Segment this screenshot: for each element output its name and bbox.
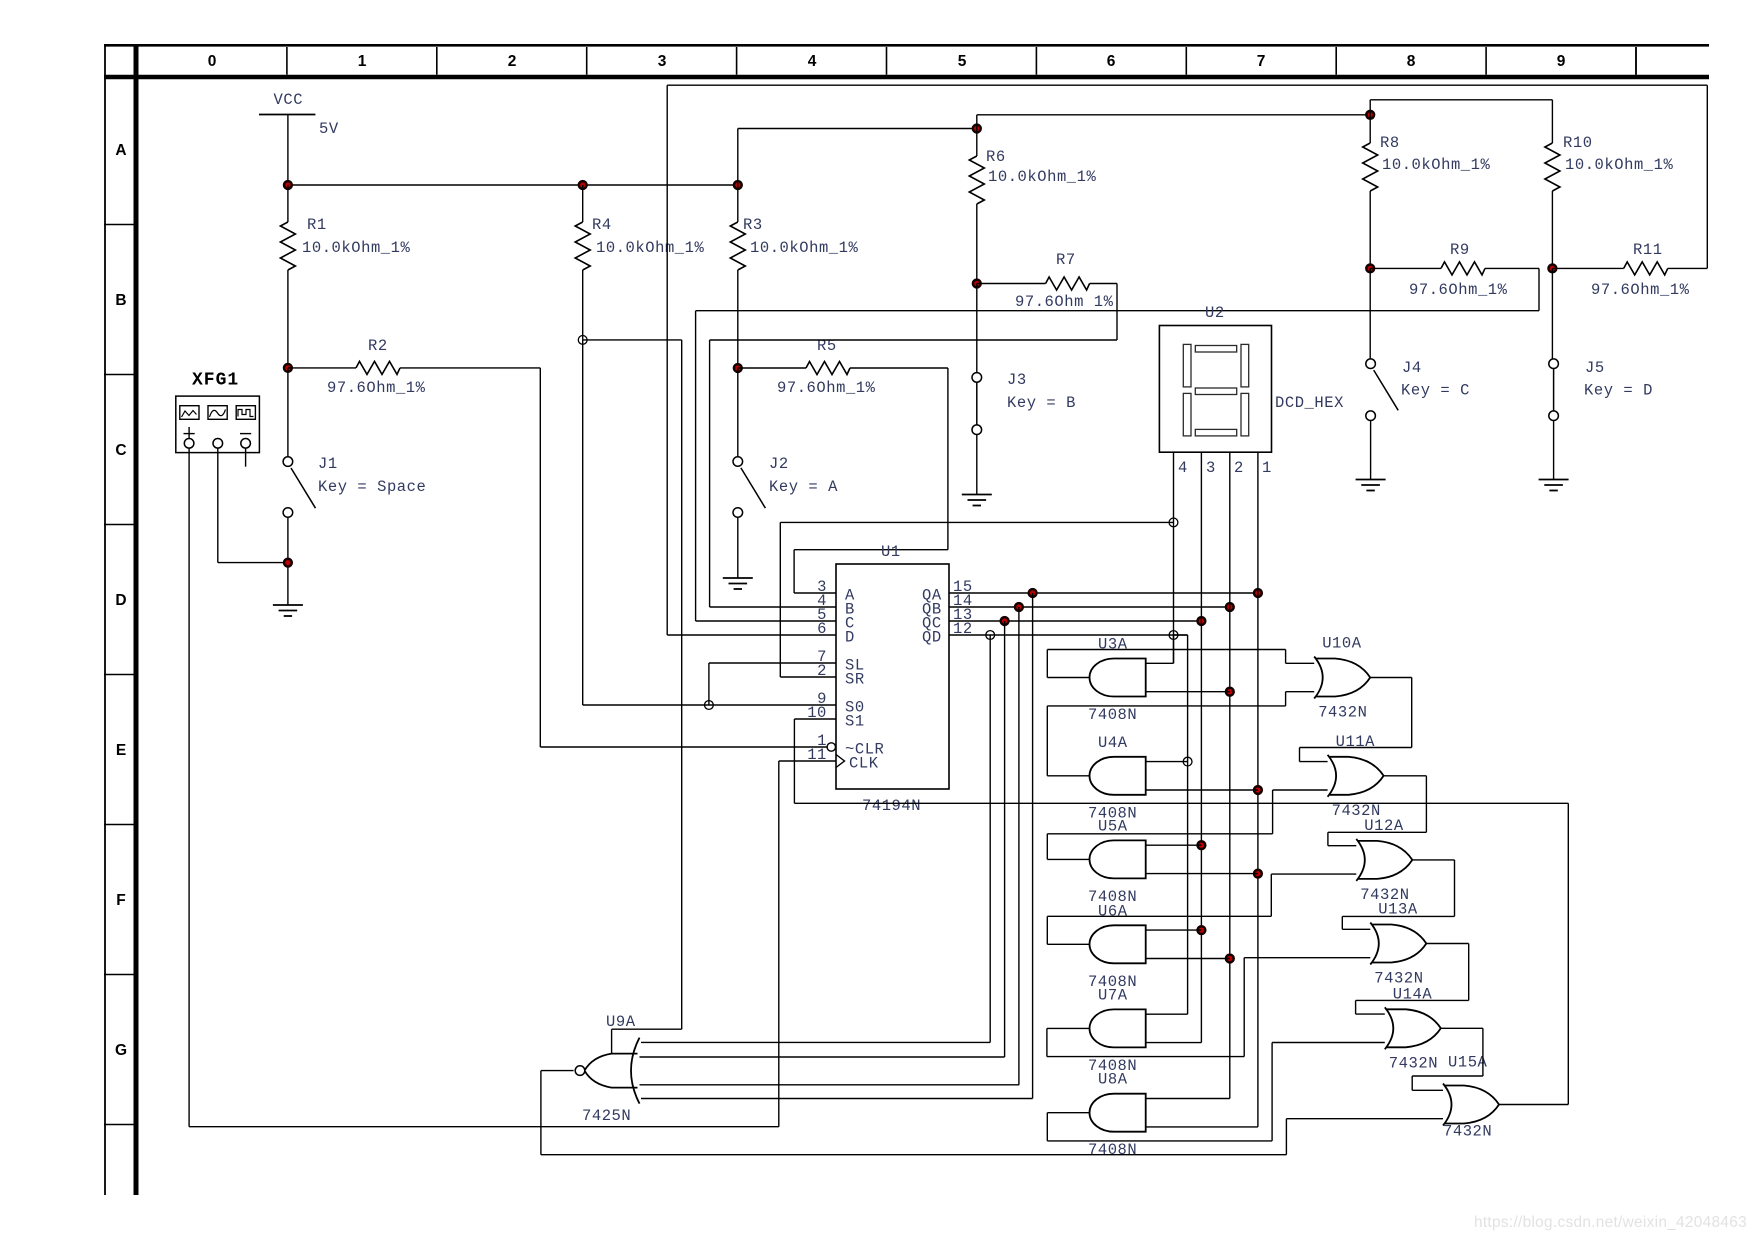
wire J1 top lead (287, 368, 289, 457)
junction R10-R11-J5 (1549, 265, 1557, 273)
svg-text:SR: SR (845, 671, 865, 689)
wire J5 top lead (1551, 268, 1553, 359)
NOR gate U9A 7425N (585, 1038, 640, 1104)
wire U2 pin1 lead (1257, 452, 1259, 1127)
junction QA-U5A input (1254, 870, 1262, 878)
resistor R8 (1363, 143, 1378, 191)
resistor R3 (730, 222, 745, 270)
wire U10A input1 stub (1286, 662, 1315, 664)
svg-text:XFG1: XFG1 (192, 371, 239, 391)
svg-text:U15A: U15A (1448, 1054, 1488, 1072)
OR gate U10A 7432N (1314, 657, 1370, 699)
wire U7A output to U13A (1047, 1056, 1244, 1058)
wire R8 lower lead (1369, 191, 1371, 268)
svg-text:10.0kOhm_1%: 10.0kOhm_1% (1565, 156, 1674, 174)
wire U10A output (1370, 677, 1412, 679)
XFG1 minus terminal (241, 439, 251, 449)
wire R5 left lead (738, 367, 806, 369)
wire R10 lower lead (1551, 191, 1553, 268)
junction QB drop (1015, 603, 1023, 611)
junction QD drop (986, 631, 995, 640)
wire U1 pin C stub (696, 620, 836, 622)
wire R2 right lead (400, 367, 540, 369)
svg-text:R8: R8 (1380, 134, 1400, 152)
wire U3A output to U10A (1047, 649, 1285, 651)
resistor R6 (969, 156, 984, 204)
junction R1-R2-J1 (284, 364, 292, 372)
ground at J1 (273, 605, 303, 616)
junction QC drop (1001, 617, 1009, 625)
svg-text:U7A: U7A (1098, 986, 1128, 1004)
wire U10A input2 stub (1286, 691, 1315, 693)
svg-text:CLK: CLK (849, 755, 879, 773)
XFG1 plus mark (184, 427, 195, 439)
switch J4 top contact (1366, 359, 1376, 369)
svg-text:7432N: 7432N (1443, 1123, 1492, 1141)
wire U9A input1 stub (611, 1029, 613, 1054)
wire U3A output riser (1046, 650, 1048, 678)
svg-text:G: G (115, 1042, 127, 1059)
wire U14A input1 stub (1356, 1013, 1385, 1015)
wire QD output (949, 634, 1188, 636)
svg-text:U1: U1 (881, 543, 901, 561)
wire XFG1 minus stub (245, 448, 247, 467)
junction VCC-R8 (1366, 111, 1374, 119)
wire U15A output lead (1499, 1104, 1568, 1106)
junction VCC-R3 (734, 181, 742, 189)
switch J3 top contact (972, 373, 982, 383)
wire D net riser (1706, 85, 1708, 268)
svg-text:4: 4 (1178, 459, 1188, 477)
wire U12A input2 stub (1271, 873, 1356, 875)
wire XFG1 common to ground node (218, 562, 288, 564)
wire R2 left lead (288, 367, 356, 369)
wire U12A input1 drop (1327, 832, 1329, 845)
junction QA-U4A input (1254, 786, 1262, 794)
function generator XFG1 box (176, 396, 260, 453)
switch J1 bottom contact (283, 508, 293, 518)
junction R6-R7-J3 (973, 280, 981, 288)
shift register U1 box (836, 564, 949, 789)
wire J5 bottom lead (1553, 421, 1555, 480)
wire U10A input1 drop (1285, 650, 1287, 664)
U1 ~CLR bubble (827, 743, 835, 751)
wire U15A input2 riser (1285, 1119, 1287, 1155)
wire U14A output (1441, 1027, 1483, 1029)
wire R8 top lead (1369, 100, 1371, 143)
svg-text:https://blog.csdn.net/weixin_4: https://blog.csdn.net/weixin_42048463 (1474, 1214, 1747, 1231)
junction QC-U5A input (1198, 841, 1206, 849)
junction R4 branch (578, 336, 587, 345)
wire branch to U9A elbow (612, 1028, 682, 1030)
wire U7A input1 from QD (1146, 1013, 1188, 1015)
svg-text:R6: R6 (986, 148, 1006, 166)
svg-text:Key = C: Key = C (1401, 382, 1470, 400)
svg-text:R2: R2 (368, 337, 388, 355)
junction SR-QD (1169, 518, 1178, 527)
junction QB-U6A input (1226, 955, 1234, 963)
OR gate U14A 7432N (1385, 1007, 1441, 1049)
wire R4 to S0 (582, 340, 584, 705)
wire J2 bottom lead (737, 517, 739, 578)
wire C net drop (1538, 268, 1540, 310)
wire U11A input1 stub (1300, 761, 1328, 763)
svg-text:Key = A: Key = A (769, 478, 838, 496)
wire U10A to U11A (1300, 747, 1412, 749)
svg-text:97.6Ohm_1%: 97.6Ohm_1% (777, 379, 876, 397)
wire U12A input2 riser (1270, 874, 1272, 916)
svg-text:D: D (115, 592, 126, 609)
svg-text:7432N: 7432N (1389, 1054, 1438, 1072)
wire U8A output lead (1047, 1112, 1089, 1114)
svg-text:7408N: 7408N (1088, 706, 1137, 724)
wire U1 pin SR stub (780, 676, 836, 678)
svg-text:J2: J2 (769, 455, 789, 473)
schematic border frame with column numbers and row letters (104, 44, 1709, 47)
wire B net drop (1116, 284, 1118, 341)
wire U7A output lead (1047, 1027, 1090, 1029)
wire QC output (949, 620, 1201, 622)
svg-text:E: E (116, 742, 126, 759)
wire R5 to A net (947, 368, 949, 550)
svg-text:97.6Ohm_1%: 97.6Ohm_1% (327, 379, 426, 397)
svg-text:1: 1 (358, 53, 367, 70)
wire A net horizontal (794, 549, 948, 551)
wire J4 top lead (1369, 268, 1371, 359)
svg-text:6: 6 (1107, 53, 1116, 70)
wire U4A output to U10A (1047, 705, 1285, 707)
switch J5 bottom contact (1549, 411, 1559, 421)
svg-text:J3: J3 (1007, 371, 1027, 389)
svg-text:R1: R1 (307, 216, 327, 234)
wire A net drop (793, 550, 795, 593)
switch J5 top contact (1549, 359, 1559, 369)
wire U6A output riser (1046, 916, 1048, 944)
wire QD corner (1174, 634, 1188, 636)
wire D net top horizontal (667, 84, 1707, 86)
OR gate U13A 7432N (1370, 923, 1426, 965)
wire U1 pin A stub (794, 592, 836, 594)
wire C net to pin (695, 311, 697, 621)
svg-text:R7: R7 (1056, 251, 1076, 269)
svg-text:7408N: 7408N (1088, 1141, 1137, 1159)
wire CLK to XFG1 (189, 1126, 779, 1128)
wire U13A output drop (1468, 944, 1470, 1001)
wire U11A input2 stub (1273, 789, 1328, 791)
wire U13A to U14A (1356, 999, 1469, 1001)
wire U15A input1 stub (1412, 1089, 1443, 1091)
resistor R10 (1545, 143, 1560, 191)
wire U9A input2 (640, 1056, 1005, 1058)
wire SR riser (779, 522, 781, 677)
svg-text:8: 8 (1407, 53, 1416, 70)
svg-text:R10: R10 (1563, 134, 1593, 152)
switch J2 bottom contact (733, 508, 743, 518)
wire U14A output drop (1482, 1028, 1484, 1076)
wire R7 right lead (1090, 283, 1117, 285)
wire U13A input1 stub (1342, 928, 1370, 930)
junction QC to U2 pin3 (1198, 617, 1206, 625)
svg-text:2: 2 (508, 53, 517, 70)
wire S1 to U15A output (1567, 803, 1569, 1104)
wire U8A output to U14A (1047, 1140, 1272, 1142)
wire CLK drop (778, 761, 780, 1127)
wire U13A input2 riser (1243, 958, 1245, 1057)
wire branch to U9A (681, 340, 683, 1029)
junction VCC-R4 (579, 181, 587, 189)
junction SL-S0 (705, 701, 714, 710)
ground at J4 (1356, 480, 1386, 491)
wire U2 pin2 lead (1229, 452, 1231, 1098)
wire U7A output drop (1046, 1028, 1048, 1056)
wire R5 right lead (850, 367, 948, 369)
wire U4A output riser (1046, 706, 1048, 776)
svg-text:U2: U2 (1205, 304, 1225, 322)
wire QA output (949, 592, 1258, 594)
wire U1 pin D stub (667, 634, 836, 636)
switch J5 closed blade (1553, 368, 1555, 411)
U2 seven segment digit (1183, 344, 1191, 387)
wire SL to S0 net (708, 663, 710, 705)
wire R11 right lead (1668, 267, 1708, 269)
wire U13A input1 drop (1341, 916, 1343, 929)
junction QC-U6A input (1198, 926, 1206, 934)
wire U9A output to U15A (541, 1154, 1287, 1156)
svg-text:10.0kOhm_1%: 10.0kOhm_1% (988, 168, 1097, 186)
svg-text:R9: R9 (1450, 241, 1470, 259)
resistor R5 (806, 362, 850, 375)
svg-text:97.6Ohm 1%: 97.6Ohm 1% (1015, 293, 1114, 311)
wire U9A output lead (541, 1070, 574, 1072)
wire R4 upper lead (582, 185, 584, 222)
wire U1 pin CLK stub (779, 760, 836, 762)
wire ~CLR from R2 (540, 746, 827, 748)
wire B net to pin (709, 340, 711, 607)
wire R2 to ~CLR (539, 368, 541, 747)
svg-text:S1: S1 (845, 713, 865, 731)
wire J3 bottom lead (976, 435, 978, 495)
wire U11A to U12A (1328, 831, 1427, 833)
svg-text:U4A: U4A (1098, 734, 1128, 752)
wire VCC rail to R6 (738, 128, 977, 130)
junction QB to U2 pin2 (1226, 603, 1234, 611)
svg-text:Key = D: Key = D (1584, 382, 1653, 400)
OR gate U11A 7432N (1328, 755, 1384, 797)
svg-text:10.0kOhm_1%: 10.0kOhm_1% (596, 239, 705, 257)
svg-text:10.0kOhm_1%: 10.0kOhm_1% (302, 239, 411, 257)
wire QB output (949, 606, 1230, 608)
wire U10A output drop (1411, 678, 1413, 748)
XFG1 common terminal (213, 439, 223, 449)
svg-text:J5: J5 (1585, 359, 1605, 377)
wire U9A output drop (540, 1071, 542, 1155)
wire SR to QD net (780, 521, 1173, 523)
junction VCC-R1 (284, 181, 292, 189)
svg-text:R11: R11 (1633, 241, 1663, 259)
wire U4A input2 from QA (1146, 789, 1258, 791)
wire U9A input3 (640, 1084, 1020, 1086)
switch J1 top contact (283, 457, 293, 467)
wire R6 lower lead (976, 204, 978, 284)
display U2 box (1159, 326, 1271, 453)
svg-text:U3A: U3A (1098, 636, 1128, 654)
wire node S0 branch (583, 339, 682, 341)
svg-text:DCD_HEX: DCD_HEX (1275, 394, 1344, 412)
wire U12A output (1412, 859, 1454, 861)
wire U2 pin4 lead (1173, 452, 1175, 663)
AND gate U7A 7408N (1089, 1009, 1145, 1047)
wire U5A input1 from QC (1146, 844, 1202, 846)
wire S1 long horizontal (794, 802, 1568, 804)
wire VCC rail (288, 184, 738, 186)
wire U5A input2 from QA (1146, 873, 1258, 875)
ground at J2 (723, 578, 753, 589)
wire U11A input2 riser (1272, 790, 1274, 834)
wire U14A input1 drop (1355, 1000, 1357, 1014)
wire U13A input2 stub (1244, 957, 1370, 959)
wire R9 left lead (1370, 267, 1441, 269)
junction QA to U2 pin1 (1254, 589, 1262, 597)
junction QD to U2 pin4 (1169, 631, 1178, 640)
OR gate U12A 7432N (1356, 839, 1412, 881)
svg-text:7425N: 7425N (582, 1107, 631, 1125)
wire J4 bottom lead (1370, 421, 1372, 480)
wire U7A input2 from QC (1146, 1042, 1202, 1044)
wire R7 left lead (977, 283, 1046, 285)
U1 CLK edge triangle (836, 755, 845, 768)
wire U6A output to U12A (1047, 915, 1271, 917)
wire QB drop to U9A (1018, 607, 1020, 1085)
wire S1 drop (793, 719, 795, 803)
wire U8A output drop (1046, 1113, 1048, 1141)
wire J2 top lead (737, 368, 739, 457)
wire U8A input2 from QA (1146, 1126, 1258, 1128)
wire U12A output drop (1454, 860, 1456, 917)
svg-text:U6A: U6A (1098, 902, 1128, 920)
XFG1 minus mark (240, 433, 251, 435)
svg-text:Key = Space: Key = Space (318, 478, 426, 496)
wire U1 pin B stub (710, 606, 836, 608)
wire U11A output drop (1425, 776, 1427, 833)
wire R10 top lead (1551, 100, 1553, 143)
OR gate U15A 7432N (1443, 1084, 1499, 1126)
power VCC symbol (259, 114, 315, 116)
svg-text:U5A: U5A (1098, 817, 1128, 835)
wire QD branch drop (1187, 635, 1189, 1014)
wire U5A output to U11A (1047, 833, 1272, 835)
resistor R11 (1624, 262, 1668, 275)
svg-text:4: 4 (808, 53, 817, 70)
wire U1 pin S1 stub (794, 718, 836, 720)
switch J4 bottom contact (1366, 411, 1376, 421)
wire QC drop to U9A (1004, 621, 1006, 1057)
wire U14A input2 riser (1271, 1043, 1273, 1141)
wire U3A input1 from QD (1146, 662, 1174, 664)
svg-text:J4: J4 (1402, 359, 1422, 377)
wire J3 top lead (976, 284, 978, 374)
svg-text:Key = B: Key = B (1007, 394, 1076, 412)
resistor R9 (1441, 262, 1485, 275)
resistor R4 (575, 222, 590, 270)
svg-text:10.0kOhm_1%: 10.0kOhm_1% (1382, 156, 1491, 174)
wire U1 pin SL stub (709, 662, 836, 664)
svg-text:10.0kOhm_1%: 10.0kOhm_1% (750, 239, 859, 257)
AND gate U4A 7408N (1089, 757, 1145, 795)
junction QD-U4A input (1183, 757, 1192, 766)
svg-text:3: 3 (1206, 459, 1216, 477)
svg-text:1: 1 (1262, 459, 1272, 477)
wire U5A output riser (1046, 834, 1048, 860)
switch J3 closed blade (976, 382, 978, 425)
wire R6 top lead (976, 115, 978, 156)
junction VCC-R6 (973, 125, 981, 133)
svg-text:74194N: 74194N (862, 797, 921, 815)
wire U15A input2 stub (1286, 1118, 1443, 1120)
svg-text:3: 3 (658, 53, 667, 70)
svg-text:R3: R3 (743, 216, 763, 234)
svg-text:A: A (115, 142, 126, 159)
wire QD drop to U9A (989, 635, 991, 1042)
svg-text:97.6Ohm_1%: 97.6Ohm_1% (1409, 281, 1508, 299)
wire C net horizontal (696, 310, 1539, 312)
wire U15A input1 drop (1411, 1076, 1413, 1090)
svg-text:F: F (116, 892, 125, 909)
wire U5A output lead (1047, 858, 1089, 860)
ground at J5 (1539, 480, 1569, 491)
junction QB-U3A input (1226, 688, 1234, 696)
switch J4 lever (1374, 370, 1399, 410)
wire XFG1 plus lead (188, 448, 190, 1127)
wire U3A input2 from QB (1146, 691, 1230, 693)
wire D net drop (666, 85, 668, 635)
wire R3 upper lead (737, 185, 739, 222)
wire U9A input1 (641, 1041, 990, 1043)
wire U13A output (1426, 943, 1468, 945)
wire S0 net (583, 704, 836, 706)
wire VCC rail riser (737, 129, 739, 186)
XFG1 plus terminal (184, 439, 194, 449)
resistor R1 (280, 222, 295, 270)
wire U12A to U13A (1342, 915, 1454, 917)
wire XFG1 common lead (217, 448, 219, 563)
AND gate U6A 7408N (1089, 925, 1145, 963)
resistor R7 (1046, 277, 1090, 290)
wire QA drop to U9A (1032, 593, 1034, 1099)
wire R3 lower lead (737, 270, 739, 368)
wire VCC rail to R10 (1370, 99, 1552, 101)
svg-text:QD: QD (922, 629, 942, 647)
wire VCC stem (287, 115, 289, 186)
switch J3 bottom contact (972, 425, 982, 435)
wire U9A input4 (641, 1098, 1033, 1100)
wire B net horizontal (710, 339, 1117, 341)
wire R1 lower lead (287, 270, 289, 368)
AND gate U5A 7408N (1089, 840, 1145, 878)
svg-text:U10A: U10A (1322, 635, 1362, 653)
wire U2 pin3 lead (1200, 452, 1202, 1042)
wire VCC rail to R8 (977, 114, 1370, 116)
junction QA drop (1029, 589, 1037, 597)
wire U14A to U15A (1412, 1075, 1483, 1077)
svg-text:B: B (115, 292, 126, 309)
svg-text:5: 5 (958, 53, 967, 70)
wire U14A input2 stub (1272, 1042, 1385, 1044)
AND gate U3A 7408N (1089, 659, 1145, 697)
svg-text:R4: R4 (592, 216, 612, 234)
svg-text:U9A: U9A (606, 1013, 636, 1031)
svg-text:7432N: 7432N (1318, 704, 1367, 722)
junction R3-R5-J2 (734, 364, 742, 372)
